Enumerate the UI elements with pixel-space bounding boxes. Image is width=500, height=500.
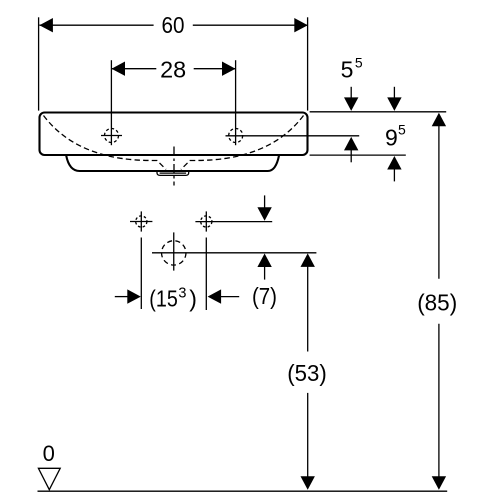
dimension (7): upper arrow stem	[264, 195, 266, 208]
drain outlet outer outline	[157, 172, 189, 176]
dimension 60: dimension line left segment	[39, 24, 153, 26]
washbasin inner bowl dashed contour right	[181, 116, 304, 170]
right tap hole dashed circle	[229, 129, 243, 143]
svg-text:28: 28	[160, 57, 186, 83]
right fixing hole crosshair horizontal merged with reference line	[195, 221, 272, 223]
reference line at basin bottom level	[310, 154, 406, 156]
dimension 28: right arrowhead	[222, 61, 236, 75]
svg-text:5: 5	[398, 122, 406, 138]
right fixing hole dashed circle	[201, 216, 212, 227]
dimension (7): lower arrow stem	[264, 266, 266, 279]
dimension (85): upper stem	[438, 126, 440, 279]
svg-text:5: 5	[355, 54, 363, 70]
dimension (15.3): left-pointing arrowhead	[208, 289, 222, 303]
floor line	[38, 490, 448, 492]
drain trap dashed circle	[162, 241, 186, 265]
right fixing hole extension line down	[205, 238, 207, 311]
dimension 9.5: up arrowhead	[387, 156, 401, 170]
washbasin inner bowl dashed contour left	[44, 116, 167, 170]
drain outlet inner line	[160, 172, 187, 174]
right tap hole crosshair horizontal merged with reference line	[226, 135, 360, 137]
dimension 60: right arrowhead	[294, 18, 308, 32]
dimension (53): lower stem	[307, 393, 309, 477]
dimension (53): bottom down arrowhead	[301, 476, 315, 490]
dimension 9.5: down arrowhead	[387, 97, 401, 111]
dimension 28: right extension line through tap hole	[235, 60, 237, 145]
svg-text:9: 9	[385, 124, 398, 150]
reference line at drain level	[152, 252, 316, 254]
left fixing hole dashed circle	[136, 216, 147, 227]
dimension (85): lower stem	[438, 324, 440, 478]
dimension 28: left arrowhead	[112, 61, 126, 75]
left fixing hole extension line down	[140, 238, 142, 310]
datum zero triangle	[38, 468, 60, 489]
dimension (15.3): left arrow stem	[115, 296, 128, 298]
svg-text:5: 5	[341, 57, 354, 83]
dimension 60: left extension line	[38, 17, 40, 110]
left tap hole crosshair horizontal	[101, 135, 122, 137]
svg-text:0: 0	[43, 441, 55, 466]
left fixing hole crosshair vertical	[140, 211, 142, 231]
left tap hole dashed circle	[105, 129, 119, 143]
dimension (53): upper stem	[307, 266, 309, 351]
washbasin apron outline	[66, 156, 279, 171]
drain trap crosshair vertical	[173, 232, 175, 270]
dimension (7): down arrowhead	[257, 207, 271, 221]
svg-text:60: 60	[162, 12, 185, 38]
dimension 28: dimension line left segment	[112, 68, 156, 70]
svg-text:(85): (85)	[417, 289, 457, 315]
left fixing hole crosshair horizontal	[130, 221, 152, 223]
dimension 60: left arrowhead	[39, 18, 53, 32]
dimension 5.5: lower arrow stem	[350, 150, 352, 163]
dimension 28: dimension line right segment	[194, 68, 235, 70]
dimension (85): bottom down arrowhead	[432, 476, 446, 490]
right fixing hole crosshair vertical	[205, 211, 207, 231]
dimension 5.5: down arrowhead	[344, 97, 358, 111]
svg-text:(15: (15	[149, 286, 178, 312]
dimension 28: left extension line through tap hole	[110, 60, 112, 145]
washbasin body outline	[40, 113, 308, 156]
svg-text:(7): (7)	[252, 283, 277, 309]
dimension 60: dimension line right segment	[193, 24, 308, 26]
svg-text:(53): (53)	[287, 360, 327, 386]
dimension 9.5: lower arrow stem	[393, 169, 395, 182]
dimension (85): top up arrowhead	[432, 113, 446, 127]
dimension (7): up arrowhead	[257, 254, 271, 268]
vertical centerline through drain	[173, 147, 175, 186]
svg-text:): )	[189, 286, 197, 312]
reference line at basin top level	[310, 111, 447, 113]
dimension 5.5: up arrowhead	[344, 137, 358, 151]
svg-text:3: 3	[178, 286, 186, 302]
dimension (15.3): right arrow stem	[220, 296, 239, 298]
dimension (15.3): right-pointing arrowhead	[127, 289, 141, 303]
dimension (53): top up arrowhead	[301, 253, 315, 267]
dimension 5.5: upper arrow stem	[350, 87, 352, 99]
dimension 9.5: upper arrow stem	[393, 87, 395, 99]
dimension 60: right extension line	[307, 17, 309, 110]
